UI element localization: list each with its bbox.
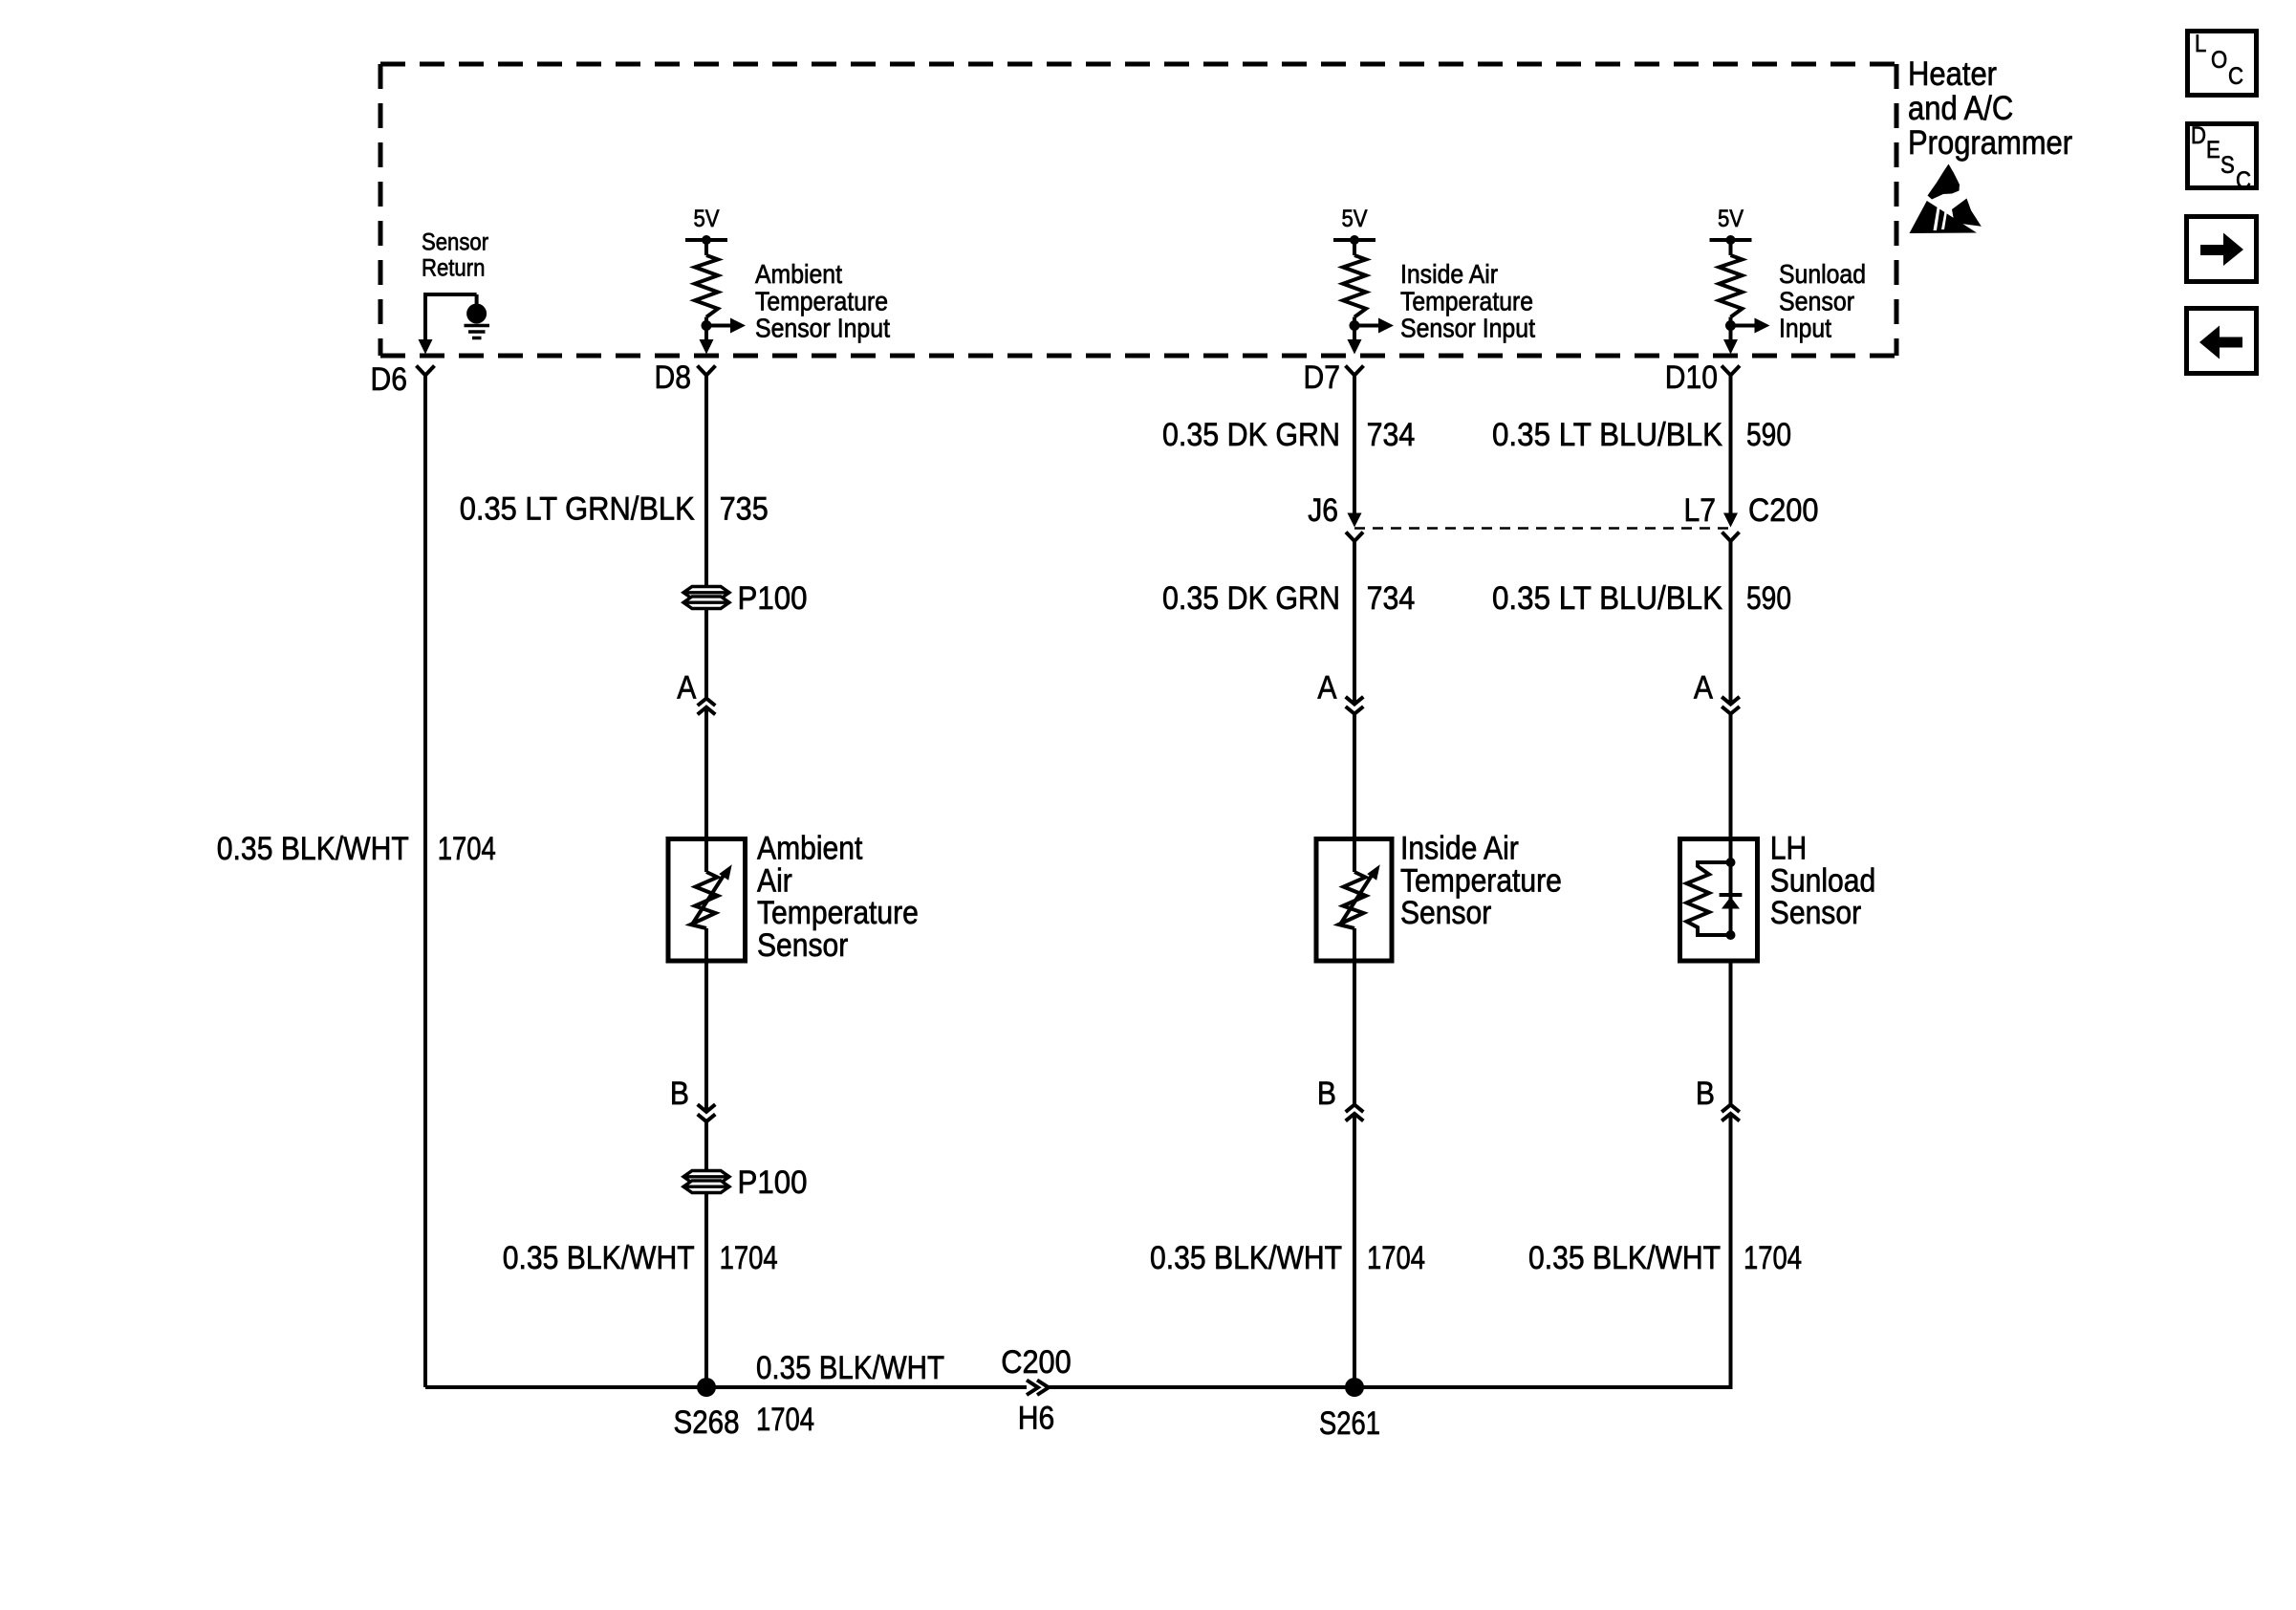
junction dot sensor input tap (Inside Air Temperature Sensor Input) bbox=[1350, 320, 1360, 331]
connector C200 in-line dashed separator bbox=[1354, 527, 1731, 530]
svg-text:S: S bbox=[2220, 152, 2235, 179]
Heater and A/C Programmer dashed enclosure (left border) bbox=[379, 64, 383, 356]
wire photodiode branch (LH Sunload Sensor) bbox=[1729, 862, 1733, 935]
svg-text:1704: 1704 bbox=[756, 1402, 814, 1438]
svg-text:0.35 LT BLU/BLK: 0.35 LT BLU/BLK bbox=[1492, 417, 1722, 453]
arrowhead sensor input (Inside Air Temperature Sensor Input) bbox=[1378, 318, 1394, 334]
svg-text:C200: C200 bbox=[1748, 492, 1819, 529]
svg-text:S268: S268 bbox=[674, 1404, 740, 1441]
svg-text:Programmer: Programmer bbox=[1908, 124, 2072, 162]
photodiode triangle (LH Sunload Sensor) bbox=[1722, 897, 1740, 909]
svg-text:5V: 5V bbox=[1718, 206, 1744, 232]
svg-text:Input: Input bbox=[1779, 314, 1831, 343]
svg-text:Ambient: Ambient bbox=[757, 831, 863, 867]
component box Inside Air Temperature Sensor bbox=[1316, 839, 1392, 962]
wire 5V bar to resistor (Sunload Sensor Input) bbox=[1729, 240, 1733, 255]
wire resistor to pin arrow (Ambient Temperature Sensor Input) bbox=[704, 317, 708, 340]
svg-text:5V: 5V bbox=[693, 206, 719, 232]
arrowhead sensor input (Sunload Sensor Input) bbox=[1755, 318, 1770, 334]
svg-text:B: B bbox=[1317, 1076, 1336, 1112]
splice S268 bbox=[697, 1378, 716, 1397]
ground bar 2 bbox=[468, 330, 486, 334]
svg-text:0.35 BLK/WHT: 0.35 BLK/WHT bbox=[1150, 1240, 1342, 1276]
wire to input arrow (Sunload Sensor Input) bbox=[1731, 324, 1756, 328]
svg-text:0.35 LT GRN/BLK: 0.35 LT GRN/BLK bbox=[460, 490, 695, 527]
grommet P100 disc1 center line (Ambient sensor return wire) bbox=[683, 1175, 729, 1178]
wire Sensor Return horizontal bbox=[425, 293, 477, 296]
svg-text:735: 735 bbox=[720, 490, 769, 527]
back navigation arrow box bbox=[2187, 309, 2257, 374]
ground bar 3 bbox=[472, 337, 482, 340]
svg-text:D10: D10 bbox=[1665, 359, 1718, 396]
wire resistor to pin arrow (Inside Air Temperature Sensor Input) bbox=[1353, 317, 1356, 340]
svg-text:Sensor: Sensor bbox=[1770, 895, 1861, 931]
5V supply junction dot (Ambient Temperature Sensor Input) bbox=[702, 235, 711, 245]
svg-text:Sensor Input: Sensor Input bbox=[755, 314, 890, 343]
connector chevron 2 C200 H6 bbox=[1037, 1381, 1049, 1396]
svg-text:B: B bbox=[670, 1076, 689, 1112]
svg-text:Sunload: Sunload bbox=[1770, 863, 1875, 900]
wire resistor to pin arrow (Sunload Sensor Input) bbox=[1729, 317, 1733, 340]
wire connector A to Ambient sensor bbox=[704, 707, 708, 872]
svg-text:Heater: Heater bbox=[1908, 55, 1997, 93]
svg-text:A: A bbox=[677, 669, 696, 706]
svg-text:Temperature: Temperature bbox=[1400, 863, 1562, 900]
svg-text:Sensor: Sensor bbox=[422, 229, 488, 256]
svg-text:Sensor Input: Sensor Input bbox=[1400, 314, 1535, 343]
thermistor zigzag (Ambient Air Temperature Sensor) bbox=[691, 872, 719, 928]
component box LH Sunload Sensor bbox=[1680, 839, 1758, 962]
arrowhead pin exit (Sunload Sensor Input) bbox=[1723, 339, 1738, 355]
DESC reference box bbox=[2188, 124, 2257, 188]
connector half (lower) A Ambient sensor bbox=[698, 707, 716, 715]
connector half (lower) B Ambient sensor bbox=[698, 1114, 716, 1121]
svg-text:C: C bbox=[2228, 63, 2243, 90]
arrowhead pin exit (Inside Air Temperature Sensor Input) bbox=[1348, 339, 1362, 355]
wire Sensor Return vertical to pin D6 bbox=[423, 293, 427, 340]
wire connector A to Inside Air sensor bbox=[1353, 714, 1356, 872]
arrowhead pin exit (Ambient Temperature Sensor Input) bbox=[700, 339, 714, 355]
connector half (upper) B Sunload sensor bbox=[1722, 1105, 1740, 1113]
svg-text:Sensor: Sensor bbox=[1400, 895, 1491, 931]
svg-text:H6: H6 bbox=[1018, 1401, 1055, 1437]
thermistor arrow shaft (Ambient Air Temperature Sensor) bbox=[692, 873, 726, 925]
wire C200 J6 to connector A (0.35 DK GRN 734) bbox=[1353, 541, 1356, 705]
connector half (lower) B Inside Air sensor bbox=[1346, 1114, 1364, 1121]
connector chevron below J6 bbox=[1346, 533, 1363, 542]
arrowhead sensor input (Ambient Temperature Sensor Input) bbox=[730, 318, 746, 334]
svg-text:P100: P100 bbox=[738, 1164, 808, 1201]
wire Sunload sensor to connector B bbox=[1729, 959, 1733, 1105]
wire C200 L7 to connector A (0.35 LT BLU/BLK 590) bbox=[1729, 541, 1733, 705]
forward navigation arrow box bbox=[2187, 217, 2257, 282]
svg-text:Sensor: Sensor bbox=[757, 927, 848, 964]
grommet P100 disc2 (Ambient sensor return wire) bbox=[683, 1181, 729, 1193]
resistor branch (LH Sunload Sensor) bbox=[1687, 862, 1731, 935]
svg-text:L7: L7 bbox=[1684, 492, 1717, 529]
svg-text:Inside Air: Inside Air bbox=[1400, 259, 1498, 289]
wire connector A to Sunload sensor bbox=[1729, 714, 1733, 862]
svg-text:LH: LH bbox=[1770, 831, 1808, 867]
wire D6 to splice S268 (0.35 BLK/WHT 1704) bbox=[423, 376, 427, 1388]
photodiode cathode bar (LH Sunload Sensor) bbox=[1720, 893, 1743, 897]
connector half (upper) A Ambient sensor bbox=[698, 698, 716, 706]
connector chevron 1 C200 H6 bbox=[1027, 1381, 1038, 1396]
5V supply bar (Sunload Sensor Input) bbox=[1710, 238, 1752, 242]
svg-text:0.35 DK GRN: 0.35 DK GRN bbox=[1162, 580, 1340, 617]
svg-text:Ambient: Ambient bbox=[755, 259, 842, 289]
resistor 5V pull-up (Sunload Sensor Input) bbox=[1720, 255, 1743, 317]
wire connector B to grommet P100 bbox=[704, 1121, 708, 1169]
wire P100 to splice S268 (0.35 BLK/WHT 1704) bbox=[704, 1194, 708, 1387]
svg-text:734: 734 bbox=[1367, 580, 1416, 617]
wire 5V bar to resistor (Inside Air Temperature Sensor Input) bbox=[1353, 240, 1356, 255]
connector half (upper) A Sunload sensor bbox=[1722, 697, 1740, 705]
Heater and A/C Programmer dashed enclosure (bottom border) bbox=[380, 354, 1896, 359]
Heater and A/C Programmer dashed enclosure (top border) bbox=[380, 62, 1896, 67]
junction dot Sunload sensor bottom bbox=[1726, 930, 1736, 940]
5V supply bar (Inside Air Temperature Sensor Input) bbox=[1333, 238, 1375, 242]
wire connector B to splice S261 (0.35 BLK/WHT 1704) bbox=[1353, 1114, 1356, 1387]
grommet P100 disc1 center line (D8 wire) bbox=[683, 591, 729, 594]
svg-text:D7: D7 bbox=[1304, 359, 1341, 396]
svg-text:590: 590 bbox=[1746, 580, 1791, 617]
thermistor arrowhead (Inside Air Temperature Sensor) bbox=[1367, 864, 1380, 880]
wire to input arrow (Ambient Temperature Sensor Input) bbox=[706, 324, 731, 328]
resistor 5V pull-up (Inside Air Temperature Sensor Input) bbox=[1343, 255, 1366, 317]
svg-text:0.35 DK GRN: 0.35 DK GRN bbox=[1162, 417, 1340, 453]
svg-text:0.35 BLK/WHT: 0.35 BLK/WHT bbox=[1528, 1240, 1721, 1276]
wire Inside Air sensor to connector B bbox=[1353, 928, 1356, 1105]
5V supply junction dot (Sunload Sensor Input) bbox=[1726, 235, 1736, 245]
grommet P100 disc1 (Ambient sensor return wire) bbox=[683, 1171, 729, 1184]
svg-text:Temperature: Temperature bbox=[755, 286, 888, 315]
connector chevron below L7 bbox=[1722, 533, 1740, 542]
svg-text:0.35 LT BLU/BLK: 0.35 LT BLU/BLK bbox=[1492, 580, 1722, 617]
svg-text:and A/C: and A/C bbox=[1908, 90, 2013, 127]
grommet P100 disc1 (D8 wire) bbox=[683, 587, 729, 599]
Heater and A/C Programmer dashed enclosure (right border) bbox=[1895, 64, 1899, 356]
thermistor zigzag (Inside Air Temperature Sensor) bbox=[1339, 872, 1367, 928]
svg-text:590: 590 bbox=[1746, 417, 1791, 453]
wire connector B to splice S261 (0.35 BLK/WHT 1704) bbox=[1729, 1114, 1733, 1389]
svg-text:D8: D8 bbox=[655, 359, 692, 396]
svg-text:1704: 1704 bbox=[1744, 1240, 1802, 1276]
5V supply junction dot (Inside Air Temperature Sensor Input) bbox=[1350, 235, 1359, 245]
grommet P100 disc2 (D8 wire) bbox=[683, 597, 729, 609]
pin chevron D7 bbox=[1346, 366, 1364, 376]
svg-text:734: 734 bbox=[1367, 417, 1416, 453]
pin chevron D10 bbox=[1722, 366, 1740, 376]
junction dot Sunload sensor top bbox=[1726, 858, 1736, 867]
LOC reference box bbox=[2188, 32, 2257, 96]
wire to input arrow (Inside Air Temperature Sensor Input) bbox=[1354, 324, 1379, 328]
svg-text:Air: Air bbox=[757, 863, 792, 900]
pin chevron D8 bbox=[698, 366, 716, 376]
svg-text:P100: P100 bbox=[738, 580, 808, 617]
ground dot (Sensor Return) bbox=[466, 304, 487, 324]
junction dot sensor input tap (Ambient Temperature Sensor Input) bbox=[702, 320, 712, 331]
svg-text:B: B bbox=[1696, 1076, 1715, 1112]
connector half (upper) A Inside Air sensor bbox=[1346, 697, 1364, 705]
svg-text:C200: C200 bbox=[1001, 1344, 1072, 1381]
forward navigation arrow bbox=[2200, 233, 2243, 267]
pin chevron D6 bbox=[417, 366, 435, 376]
svg-text:Sensor: Sensor bbox=[1779, 286, 1854, 315]
svg-text:D: D bbox=[2191, 122, 2206, 149]
thermistor arrowhead (Ambient Air Temperature Sensor) bbox=[719, 864, 732, 880]
connector half (lower) A Sunload sensor bbox=[1722, 707, 1740, 714]
wire ground bus S261 segment (0.35 BLK/WHT 1704) bbox=[1049, 1385, 1731, 1389]
svg-text:1704: 1704 bbox=[720, 1240, 778, 1276]
svg-text:Temperature: Temperature bbox=[757, 895, 919, 931]
arrowhead connector C200 pin L7 bbox=[1723, 513, 1738, 528]
junction dot sensor input tap (Sunload Sensor Input) bbox=[1725, 320, 1736, 331]
svg-text:D6: D6 bbox=[371, 361, 408, 398]
svg-text:S261: S261 bbox=[1319, 1405, 1380, 1442]
svg-text:E: E bbox=[2206, 137, 2220, 163]
svg-text:1704: 1704 bbox=[1367, 1240, 1425, 1276]
svg-text:Inside Air: Inside Air bbox=[1400, 831, 1519, 867]
wire D10 to connector C200 (0.35 LT BLU/BLK 590) bbox=[1729, 376, 1733, 514]
svg-text:O: O bbox=[2211, 47, 2227, 74]
svg-text:0.35 BLK/WHT: 0.35 BLK/WHT bbox=[756, 1350, 944, 1386]
back navigation arrow bbox=[2199, 326, 2242, 359]
resistor 5V pull-up (Ambient Temperature Sensor Input) bbox=[695, 255, 718, 317]
connector half (lower) B Sunload sensor bbox=[1722, 1114, 1740, 1121]
wire 5V bar to resistor (Ambient Temperature Sensor Input) bbox=[704, 240, 708, 255]
svg-text:Sunload: Sunload bbox=[1779, 259, 1866, 289]
arrowhead connector C200 pin J6 bbox=[1348, 513, 1362, 528]
wire D8 to connector A (0.35 LT GRN/BLK 735) bbox=[704, 376, 708, 699]
svg-text:5V: 5V bbox=[1341, 206, 1367, 232]
svg-text:1704: 1704 bbox=[438, 831, 496, 867]
svg-text:C: C bbox=[2236, 167, 2251, 194]
splice S261 bbox=[1345, 1378, 1364, 1397]
ground bar 1 bbox=[465, 324, 490, 328]
svg-text:Temperature: Temperature bbox=[1400, 286, 1533, 315]
svg-text:0.35 BLK/WHT: 0.35 BLK/WHT bbox=[217, 831, 409, 867]
svg-text:0.35 BLK/WHT: 0.35 BLK/WHT bbox=[503, 1240, 695, 1276]
svg-text:L: L bbox=[2195, 31, 2206, 57]
svg-text:J6: J6 bbox=[1308, 492, 1338, 529]
5V supply bar (Ambient Temperature Sensor Input) bbox=[685, 238, 727, 242]
connector half (upper) B Ambient sensor bbox=[698, 1104, 716, 1112]
svg-text:A: A bbox=[1694, 669, 1713, 706]
component box Ambient Air Temperature Sensor bbox=[668, 839, 746, 962]
grommet P100 disc2 center line (D8 wire) bbox=[683, 601, 729, 604]
wire stub to ground bbox=[475, 294, 479, 305]
thermistor arrow shaft (Inside Air Temperature Sensor) bbox=[1340, 873, 1374, 925]
wire Ambient sensor to connector B bbox=[704, 928, 708, 1112]
grommet P100 disc2 center line (Ambient sensor return wire) bbox=[683, 1185, 729, 1187]
wire ground bus S268 segment (0.35 BLK/WHT 1704) bbox=[425, 1385, 1027, 1389]
svg-text:A: A bbox=[1317, 669, 1336, 706]
connector half (upper) B Inside Air sensor bbox=[1346, 1105, 1364, 1113]
connector half (lower) A Inside Air sensor bbox=[1346, 707, 1364, 714]
svg-text:Return: Return bbox=[422, 255, 485, 282]
wire D7 to connector C200 (0.35 DK GRN 734) bbox=[1353, 376, 1356, 514]
arrowhead pin exit D6 bbox=[419, 339, 433, 355]
ESD sensitivity symbol (hand) bbox=[1910, 164, 1982, 234]
